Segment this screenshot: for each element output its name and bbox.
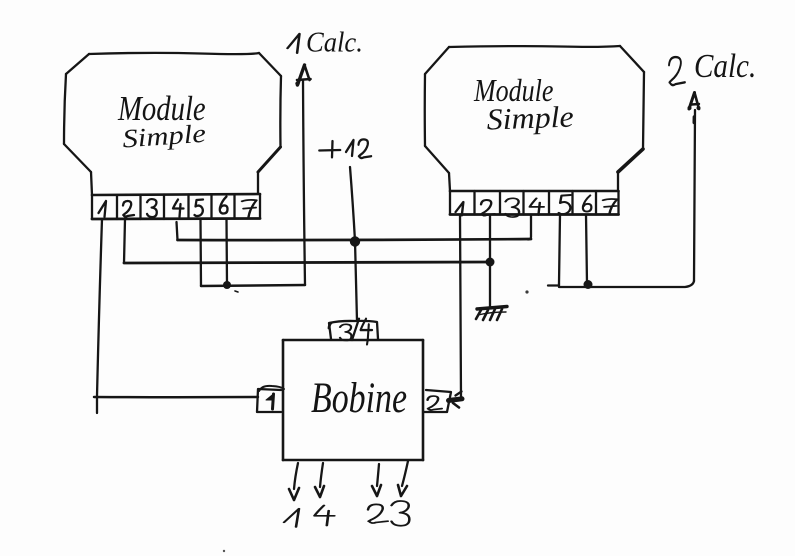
module U2 terminal strip (450, 191, 619, 215)
module U1 terminal strip (92, 194, 260, 219)
output arrow 2 from Bobine (372, 464, 381, 496)
Bobine terminal 2 label (428, 396, 442, 410)
module U2 pin number 1 (456, 202, 464, 216)
module U1 pin number 5 (195, 200, 204, 217)
wire U2 pin1 down to Bobine 2 (460, 215, 461, 400)
arrow to 2 Calc. (688, 93, 701, 282)
Bobine terminal 4 label (361, 319, 373, 341)
module U1 pin number 3 (147, 199, 157, 217)
junction dot U2 pin6 on y287 wire (584, 280, 593, 289)
label "1 Calc." net name (288, 34, 300, 53)
output label 1 (284, 509, 299, 527)
Bobine terminal 2 box (424, 390, 451, 412)
output label 2 (368, 504, 388, 523)
module U1 pin number 4 (173, 200, 184, 218)
svg-text:Calc.: Calc. (306, 26, 363, 58)
wire horizontal U1 pin1 to Bobine 1 (94, 396, 258, 399)
wire bus y263 U1 pin2 to U2 pin2 (124, 262, 490, 263)
module U1 label "Module Simple" (117, 88, 207, 154)
module U2 pin number 4 (530, 198, 544, 215)
wire arrow into Bobine 2 terminal (449, 399, 463, 401)
stray ink speck near U1 pin6 junction (235, 291, 238, 292)
wire U2 pin2 to ground (489, 262, 491, 307)
junction dot U1 pin6 on y286 wire (223, 281, 231, 289)
output arrow 1 from Bobine (289, 463, 299, 500)
wire U2 pin5 down (559, 215, 560, 285)
module U2 pin number 6 (583, 195, 591, 211)
node A junction dot (+12 on bus) (350, 236, 360, 246)
label "2 Calc." net name (669, 57, 685, 85)
arrow to 1 Calc. (295, 65, 310, 285)
Bobine terminal 3/4 box (329, 319, 378, 340)
module U1 pin number 6 (220, 197, 228, 214)
output arrow 3 from Bobine (398, 461, 408, 496)
wire U1 pin2 down (124, 219, 125, 263)
Bobine terminal 3 label (340, 324, 351, 340)
output label 3 (392, 501, 410, 526)
module U2 pin number 2 (481, 200, 495, 216)
module U2 pin number 3 (506, 198, 520, 217)
svg-text:Simple: Simple (121, 120, 206, 154)
Bobine label (311, 374, 407, 422)
svg-text:Simple: Simple (486, 99, 574, 136)
wire bus y240 U1 pin4 to U2 pin4 (178, 239, 532, 240)
module U2 label "Module Simple" (473, 74, 574, 137)
stray ink speck right of ground (525, 290, 528, 293)
module U1 pin number 7 (242, 200, 257, 217)
module U1 (left Module Simple) body outline (64, 53, 281, 195)
wire U2 pin6 down (586, 215, 587, 285)
Bobine terminal 1 label (266, 394, 274, 401)
wire U1 pin1 down (97, 219, 102, 413)
wire U2 pin4 down and left to bus y240 (528, 215, 531, 240)
output label 4 (314, 505, 334, 525)
output arrow 4 from Bobine (315, 463, 324, 497)
stray ink speck bottom (223, 550, 225, 552)
Bobine box (283, 340, 423, 460)
wire U1 pin5 down (199, 219, 202, 286)
svg-text:Calc.: Calc. (694, 47, 756, 84)
module U2 pin number 7 (603, 199, 617, 215)
wire y287 to 2 Calc. riser (548, 281, 694, 287)
module U1 pin number 1 (99, 201, 107, 217)
module U1 pin number 2 (123, 201, 134, 217)
junction dot bus y263 at U2 pin2 (486, 258, 495, 267)
wire y286 to 1 Calc. riser (201, 285, 305, 286)
wire U1 pin6 down (225, 219, 228, 285)
svg-text:Bobine: Bobine (311, 374, 407, 422)
module U2 pin number 5 (559, 195, 571, 214)
wire U2 pin2 down (489, 215, 491, 263)
Bobine terminal 1 box (257, 386, 284, 412)
label "+12" supply (319, 141, 340, 157)
module U2 (right Module Simple) body outline (425, 46, 644, 191)
wire U1 pin4 down (177, 222, 178, 240)
wire +12 vertical down to node A and Bobine 3/4 (350, 167, 357, 321)
ground symbol (476, 307, 507, 321)
